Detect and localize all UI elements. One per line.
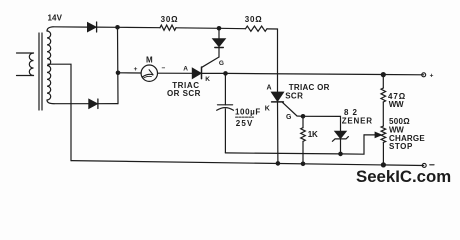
wire transformer bottom to diode D2 (54, 103, 89, 105)
node: motor branch junction (116, 71, 121, 76)
svg-text:G: G (286, 114, 292, 121)
label K (SCR1 cathode) (205, 76, 210, 83)
svg-text:STOP: STOP (389, 142, 413, 151)
resistor R2 30 ohm (246, 26, 267, 31)
zener diode D4 8.2V (332, 131, 348, 154)
diode D1 (top rectifier) (88, 22, 97, 32)
wiper arrow of potentiometer (364, 132, 381, 137)
wire R1 to gate-diode tap (176, 27, 219, 30)
label M (146, 55, 153, 64)
label + (meter polarity) (134, 66, 138, 73)
label 30 ohm (R2) (245, 15, 263, 24)
wire meter to SCR1 anode (158, 72, 193, 74)
svg-text:M: M (146, 55, 153, 64)
label G (SCR2 gate) (286, 114, 292, 121)
label 30 ohm (R1) (161, 15, 179, 24)
resistor R1 30 ohm (160, 25, 176, 30)
transformer center tap wire (48, 64, 71, 160)
wire cap bottom to zener node to wiper riser (225, 135, 364, 154)
svg-text:+: + (430, 73, 434, 80)
svg-text:SCR: SCR (285, 91, 303, 100)
label A (SCR2 anode) (267, 85, 272, 92)
svg-text:14V: 14V (48, 14, 63, 23)
wire gate node to zener (303, 116, 341, 131)
svg-text:OR SCR: OR SCR (167, 89, 201, 98)
svg-text:+: + (134, 66, 138, 73)
label 500 ohm WW CHARGE STOP (389, 117, 425, 151)
label A (SCR1 anode) (183, 65, 188, 72)
label TRIAC OR SCR (SCR2) (285, 83, 330, 100)
node: SCR1 cathode / cap junction (223, 71, 228, 76)
wire diode D1 to node (96, 26, 118, 28)
svg-text:ZENER: ZENER (342, 117, 373, 126)
terminal + output (422, 73, 426, 77)
label 1K (308, 130, 318, 139)
potentiometer R5 500 ohm WW (381, 126, 386, 165)
wire SCR1 cathode to junction (202, 72, 225, 74)
diode D3 (gate feed diode) (213, 28, 225, 57)
svg-text:K: K (205, 76, 210, 83)
diode D2 (bottom rectifier) (89, 99, 98, 109)
svg-text:25V: 25V (236, 119, 254, 128)
label - (meter polarity) (162, 65, 166, 72)
meter M (charge ammeter) (141, 65, 157, 81)
label + (output) (430, 73, 434, 80)
transformer T1 secondary winding (47, 27, 54, 104)
wire motor node to meter (118, 72, 141, 74)
label 100uF / 25V (235, 107, 261, 127)
wire node to R1 (118, 26, 161, 28)
resistor R3 1K (301, 116, 306, 164)
wire bottom rail (71, 161, 424, 166)
node: SCR2 gate junction (301, 114, 306, 119)
wire diode D2 to bus (97, 103, 118, 105)
node: zener anode junction (338, 152, 343, 157)
svg-text:−: − (162, 65, 166, 72)
svg-text:30Ω: 30Ω (161, 15, 179, 24)
node: 47 ohm branch (381, 72, 386, 77)
wire mid rail to output (226, 73, 424, 74)
svg-text:30Ω: 30Ω (245, 15, 263, 24)
transformer T1 core (39, 33, 42, 110)
svg-text:8 2: 8 2 (344, 108, 358, 117)
svg-text:1K: 1K (308, 130, 318, 139)
label K (SCR2 cathode) (265, 106, 270, 113)
wire top rail left (53, 26, 88, 28)
node: gate feed tap (217, 26, 222, 31)
label - (output) (430, 164, 434, 166)
resistor R4 47 ohm WW (381, 75, 386, 126)
label 8.2 ZENER (342, 108, 373, 126)
terminal - output (422, 163, 426, 167)
svg-text:100µF: 100µF (235, 107, 261, 116)
svg-text:A: A (267, 85, 272, 92)
node: 1K at bottom rail (301, 162, 306, 167)
SCR2 (TRIAC or SCR) (272, 92, 303, 116)
svg-text:SeekIC.com: SeekIC.com (356, 167, 451, 186)
label 14V (48, 14, 63, 23)
transformer T1 primary winding (17, 53, 34, 76)
wire tap to R2 (219, 27, 246, 29)
svg-text:G: G (219, 60, 224, 67)
wire R2 to corner, down to SCR2 anode (267, 29, 278, 92)
label G (SCR1 gate) (219, 60, 224, 67)
wire rectifier bus vertical (117, 27, 120, 103)
node: SCR2 cathode at bottom rail (276, 161, 281, 166)
wire SCR2 cathode down to bottom rail (277, 102, 279, 163)
svg-text:WW: WW (389, 100, 404, 109)
node: rectifier output junction (115, 25, 120, 30)
fraction line under 100uF (236, 116, 254, 118)
svg-text:K: K (265, 106, 270, 113)
SCR1 (TRIAC or SCR) (192, 57, 219, 79)
label TRIAC OR SCR (SCR1) (167, 81, 201, 98)
node: pot at bottom rail (381, 162, 386, 167)
svg-text:A: A (183, 65, 188, 72)
label 47 ohm WW (388, 92, 406, 109)
capacitor C1 100uF 25V (217, 73, 234, 152)
